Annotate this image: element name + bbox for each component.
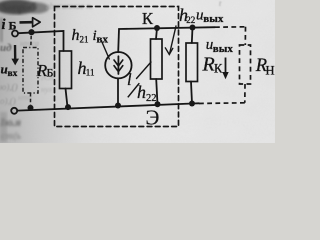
svg-text:Б: Б [9, 18, 17, 32]
svg-text:К: К [142, 9, 154, 28]
svg-text:h: h [137, 82, 146, 102]
svg-text:h: h [72, 27, 80, 44]
svg-text:Э: Э [146, 106, 160, 130]
svg-text:l: l [127, 70, 132, 89]
svg-text:ид: ид [0, 42, 12, 54]
svg-text:22: 22 [146, 93, 157, 104]
svg-text:ю),(): ю),() [0, 82, 18, 92]
svg-text:вых: вых [203, 13, 224, 25]
svg-text:о),(): о),() [0, 96, 16, 106]
svg-text:нтп: нтп [18, 93, 32, 102]
svg-text:вых: вых [213, 43, 234, 55]
svg-text:нпуса: нпуса [20, 39, 39, 48]
svg-text:гbиraпние п.: гbиraпние п. [46, 1, 93, 11]
svg-text:нул: нул [41, 85, 52, 94]
svg-text:Б: Б [47, 65, 54, 79]
svg-text:i: i [2, 17, 6, 33]
svg-text:R: R [202, 54, 215, 76]
svg-text:Sопряб: Sопряб [1, 0, 37, 14]
svg-text:вх: вх [97, 34, 109, 46]
svg-text:21: 21 [80, 35, 89, 45]
svg-text:К: К [214, 62, 223, 76]
svg-text:вх: вх [8, 69, 18, 79]
svg-text:11: 11 [86, 68, 95, 78]
svg-text:Н: Н [266, 64, 275, 78]
svg-text:22: 22 [186, 15, 195, 25]
